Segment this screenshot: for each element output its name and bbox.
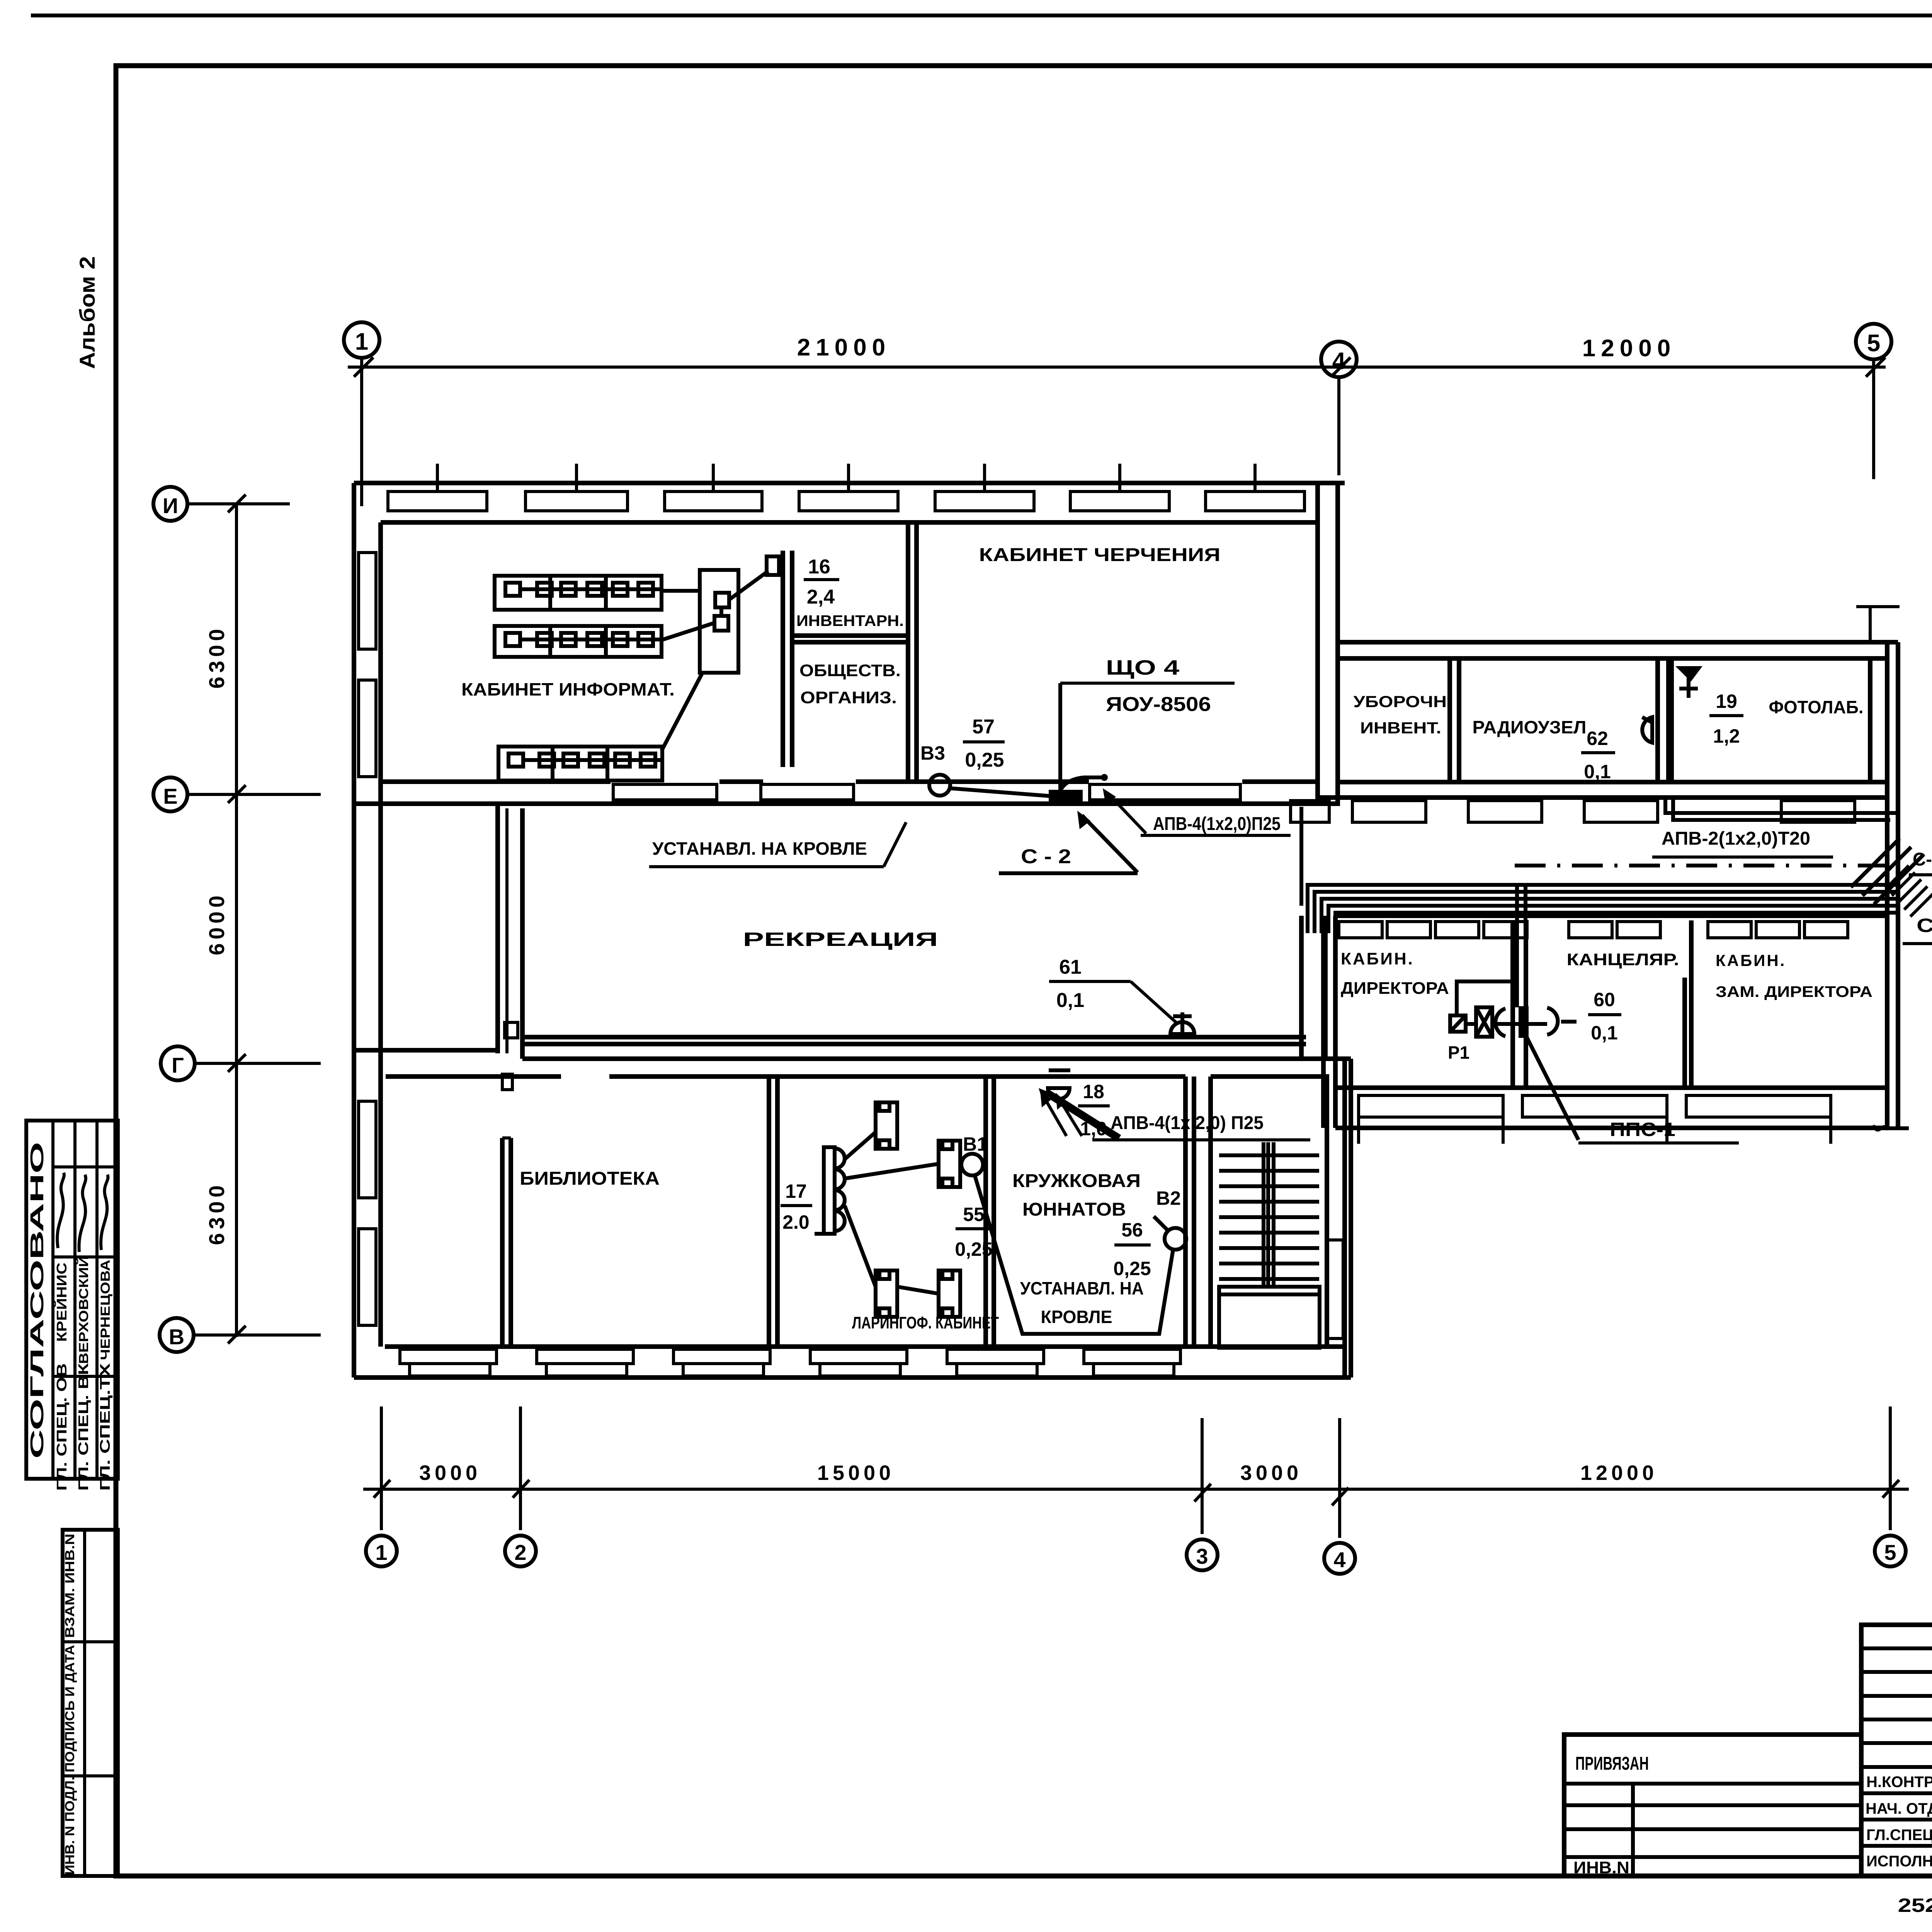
director wing bottom inner wall	[1335, 1085, 1887, 1090]
svg-text:В: В	[169, 1325, 184, 1349]
partition inventory/obshestv	[794, 633, 906, 638]
svg-text:5: 5	[1884, 1540, 1896, 1565]
svg-text:3: 3	[1196, 1544, 1208, 1568]
svg-text:19: 19	[1716, 690, 1737, 712]
svg-text:18: 18	[1083, 1081, 1104, 1102]
outer top border line	[31, 14, 1932, 17]
svg-text:ПОДПИСЬ И ДАТА: ПОДПИСЬ И ДАТА	[63, 1645, 77, 1772]
grid bubble G (left)	[161, 1046, 195, 1080]
signature squiggle 1	[57, 1173, 64, 1248]
partition informatics/inventory	[781, 551, 785, 767]
svg-text:1: 1	[375, 1540, 387, 1565]
stair left wall	[1208, 1077, 1213, 1347]
svg-text:ИНВЕНТАРН.: ИНВЕНТАРН.	[796, 612, 904, 629]
svg-text:ИНВЕНТ.: ИНВЕНТ.	[1360, 719, 1441, 737]
svg-text:РЕКРЕАЦИЯ: РЕКРЕАЦИЯ	[743, 929, 938, 950]
bundle hatch marks	[1886, 866, 1932, 917]
panel S-2 (black)	[1049, 790, 1083, 803]
upper wing north outer wall	[354, 481, 1345, 485]
svg-text:6000: 6000	[204, 892, 229, 956]
svg-text:КРЕЙНИС: КРЕЙНИС	[53, 1263, 70, 1342]
svg-text:КАБИН.: КАБИН.	[1716, 951, 1786, 969]
west inner wall	[378, 522, 383, 1347]
bundle diagonals to photolab	[1851, 838, 1923, 904]
main cable bundle	[1308, 885, 1896, 933]
lower wing bottom inner wall	[385, 1344, 1345, 1349]
ceiling vent 61	[1170, 1022, 1194, 1034]
wire L to P1	[1457, 981, 1515, 1015]
drawing-room right wall	[1315, 483, 1320, 804]
svg-text:ИНВ. N ПОДЛ.: ИНВ. N ПОДЛ.	[63, 1777, 77, 1875]
svg-text:ОБЩЕСТВ.: ОБЩЕСТВ.	[799, 661, 901, 680]
partition uborochn right	[1447, 658, 1452, 782]
svg-text:2: 2	[514, 1540, 526, 1565]
corridor window of drawing room	[1090, 784, 1240, 800]
svg-text:НАЧ. ОТД.: НАЧ. ОТД.	[1866, 1800, 1932, 1817]
PPS-1 leader	[1526, 1036, 1578, 1140]
computer desk row 3	[498, 747, 662, 781]
svg-text:17: 17	[785, 1180, 807, 1202]
laringof tables	[845, 1102, 960, 1317]
svg-text:АПВ-4(1х2,0)П25: АПВ-4(1х2,0)П25	[1153, 814, 1281, 834]
west outer wall	[352, 483, 356, 1378]
svg-text:ГЛ. СПЕЦ.ТХ: ГЛ. СПЕЦ.ТХ	[97, 1363, 113, 1491]
svg-text:60: 60	[1594, 989, 1615, 1010]
svg-text:0,1: 0,1	[1584, 761, 1611, 782]
svg-text:2,4: 2,4	[807, 586, 835, 608]
upper wing south wall inner	[381, 779, 611, 784]
svg-text:РАДИОУЗЕЛ: РАДИОУЗЕЛ	[1473, 717, 1587, 737]
svg-text:СМ. ЛИСТ ЭО-8: СМ. ЛИСТ ЭО-8	[1917, 915, 1932, 936]
library right wall	[767, 1077, 771, 1347]
wire B3 to panel	[950, 788, 1049, 796]
svg-text:21000: 21000	[797, 334, 891, 361]
cable APV-4 corridor	[1299, 807, 1303, 906]
svg-text:АПВ-4(1х 2,0) П25: АПВ-4(1х 2,0) П25	[1111, 1113, 1264, 1133]
grid bubble 5 (bottom)	[1889, 1406, 1892, 1530]
partition kancelar/zam	[1682, 978, 1687, 1088]
computer desk row 2	[495, 626, 662, 657]
recreation south wall	[522, 1035, 1306, 1039]
svg-text:ЧЕРНЕЦОВА: ЧЕРНЕЦОВА	[98, 1260, 113, 1360]
lower wing bottom outer wall	[354, 1375, 1351, 1380]
dash-dot line C-10	[1515, 864, 1889, 867]
soglasovano table	[26, 1121, 118, 1479]
central signature table	[1861, 1625, 1932, 1876]
svg-text:КАБИН.: КАБИН.	[1341, 949, 1414, 968]
svg-text:6300: 6300	[204, 1182, 229, 1245]
central vertical wall	[495, 804, 500, 1053]
thick riser arrow APV-4 lower	[1048, 1094, 1119, 1138]
director wing bottom windows	[1359, 1095, 1831, 1144]
svg-text:0,25: 0,25	[1113, 1258, 1151, 1279]
svg-text:57: 57	[972, 716, 995, 738]
door stub small	[502, 1074, 512, 1090]
grid bubble 1 (top)	[344, 322, 379, 358]
grid bubble E (left)	[153, 777, 187, 811]
svg-text:0,25: 0,25	[965, 749, 1004, 771]
svg-text:ЗАМ. ДИРЕКТОРА: ЗАМ. ДИРЕКТОРА	[1716, 983, 1872, 1000]
svg-text:3000: 3000	[1240, 1461, 1302, 1485]
top dimension line	[348, 366, 1886, 369]
right wing top corner tick	[1856, 605, 1900, 608]
grid bubble 4 (top)	[1321, 342, 1357, 377]
svg-text:С - 2: С - 2	[1021, 845, 1071, 868]
grid bubble 2 (bottom)	[519, 1406, 522, 1530]
partition photolab left	[1655, 658, 1660, 782]
svg-text:УСТАНАВЛ. НА КРОВЛЕ: УСТАНАВЛ. НА КРОВЛЕ	[652, 838, 867, 859]
svg-text:12000: 12000	[1580, 1461, 1658, 1485]
signature squiggle 3	[101, 1175, 108, 1250]
upper wing north inner wall	[381, 520, 1318, 525]
svg-text:АПВ-2(1х2,0)Т20: АПВ-2(1х2,0)Т20	[1662, 828, 1810, 849]
bottom dimension line	[363, 1488, 1909, 1491]
grid bubble 5 (top)	[1856, 324, 1891, 359]
svg-text:56: 56	[1121, 1219, 1143, 1241]
svg-text:1,0: 1,0	[1080, 1118, 1107, 1139]
corridor door sills director wing	[1339, 922, 1848, 938]
east outer wall	[1885, 642, 1889, 1128]
svg-text:ФОТОЛАБ.: ФОТОЛАБ.	[1769, 697, 1864, 717]
svg-text:УБОРОЧН.: УБОРОЧН.	[1354, 692, 1452, 711]
svg-text:62: 62	[1587, 728, 1608, 749]
svg-text:ВЗАМ. ИНВ.N: ВЗАМ. ИНВ.N	[63, 1534, 77, 1638]
corridor window informatics	[613, 784, 717, 800]
trapezoid callout krovle	[975, 1175, 1173, 1334]
svg-text:0,25: 0,25	[955, 1238, 992, 1260]
speaker symbol	[1642, 717, 1652, 743]
vertical feed wires	[1515, 885, 1519, 1007]
privyazan box	[1564, 1735, 1861, 1876]
arrow to S-2 from label	[1082, 815, 1138, 872]
svg-text:55: 55	[963, 1204, 985, 1225]
svg-text:25225-02: 25225-02	[1898, 1895, 1932, 1916]
laringof booth strip	[824, 1147, 835, 1234]
photolab inner right wall	[1868, 658, 1872, 782]
svg-text:61: 61	[1059, 956, 1082, 978]
svg-text:15000: 15000	[817, 1461, 895, 1485]
library left partition	[500, 1138, 505, 1347]
grid bubble V (left)	[160, 1318, 194, 1352]
svg-text:Е: Е	[163, 784, 177, 808]
director wing bottom outer wall	[1335, 1126, 1887, 1130]
lower wing top inner wall	[386, 1074, 561, 1079]
svg-text:ГЛ.СПЕЦ.: ГЛ.СПЕЦ.	[1866, 1827, 1932, 1844]
right wing bottom walls	[1340, 780, 1887, 784]
svg-text:ЮННАТОВ: ЮННАТОВ	[1022, 1199, 1126, 1220]
svg-text:СОГЛАСОВАНО: СОГЛАСОВАНО	[27, 1142, 48, 1459]
svg-text:5: 5	[1867, 330, 1880, 357]
svg-text:0,1: 0,1	[1591, 1022, 1618, 1044]
stair right wall	[1325, 1077, 1329, 1347]
corridor window obshestv	[761, 784, 854, 800]
wall device 16	[767, 556, 779, 575]
antenna symbol photolab	[1675, 666, 1702, 682]
stairs/director wall	[1321, 916, 1326, 1128]
svg-text:В2: В2	[1156, 1187, 1181, 1209]
svg-text:ПРИВЯЗАН: ПРИВЯЗАН	[1575, 1753, 1649, 1774]
north windows row	[388, 464, 1304, 511]
svg-text:0,1: 0,1	[1056, 989, 1084, 1012]
svg-text:И: И	[163, 493, 178, 518]
svg-text:Альбом 2: Альбом 2	[75, 256, 99, 369]
wires informatics	[662, 571, 768, 751]
stairs	[1219, 1142, 1320, 1348]
svg-text:ГЛ. СПЕЦ. ОВ: ГЛ. СПЕЦ. ОВ	[54, 1363, 70, 1491]
south windows row	[400, 1349, 1180, 1376]
svg-text:КРОВЛЕ: КРОВЛЕ	[1041, 1307, 1112, 1327]
svg-text:12000: 12000	[1582, 335, 1676, 362]
svg-text:1,2: 1,2	[1713, 725, 1740, 747]
lower wing top outer wall	[354, 1048, 498, 1053]
svg-text:6300: 6300	[204, 625, 229, 689]
ceiling symbol yunnat	[1048, 1088, 1070, 1099]
svg-text:3000: 3000	[419, 1461, 481, 1485]
yunnat right wall	[1183, 1077, 1188, 1347]
svg-text:КАБИНЕТ ИНФОРМАТ.: КАБИНЕТ ИНФОРМАТ.	[461, 679, 675, 699]
partition director/kancelar	[1510, 920, 1515, 1088]
svg-text:1: 1	[355, 328, 368, 355]
svg-text:4: 4	[1333, 1548, 1345, 1572]
riser to board label	[1058, 683, 1062, 791]
partition right of small rooms	[906, 522, 910, 782]
signature squiggle 2	[79, 1175, 86, 1252]
connecting wall stairs to director wing	[1299, 916, 1304, 1059]
svg-text:ОРГАНИЗ.: ОРГАНИЗ.	[800, 688, 897, 707]
grid bubble 4 (bottom)	[1338, 1418, 1341, 1538]
director wing corridor wall	[1335, 913, 1887, 918]
right wing top wall	[1338, 640, 1898, 645]
laringof right / yunnat left wall	[983, 1077, 988, 1347]
svg-text:ЩО 4: ЩО 4	[1106, 656, 1179, 679]
grid bubble 3 (bottom)	[1201, 1418, 1204, 1534]
stairwell window bay	[1327, 1240, 1343, 1338]
svg-text:УСТАНАВЛ. НА: УСТАНАВЛ. НА	[1020, 1278, 1144, 1298]
left dimension line	[235, 502, 238, 1337]
teacher panel cabinet	[700, 570, 738, 673]
ground symbol / wall end bar	[1854, 1126, 1909, 1130]
svg-text:ЯОУ-8506: ЯОУ-8506	[1106, 693, 1211, 716]
svg-text:В3: В3	[920, 742, 945, 764]
svg-text:Р1: Р1	[1448, 1043, 1469, 1063]
svg-text:16: 16	[808, 556, 830, 578]
computer desk row 1	[495, 576, 662, 610]
svg-text:В1: В1	[963, 1133, 988, 1155]
svg-text:ГЛ. СПЕЦ. ВК: ГЛ. СПЕЦ. ВК	[75, 1363, 91, 1491]
svg-text:ППС-1: ППС-1	[1610, 1119, 1675, 1140]
arrow2 to S-2	[1107, 793, 1146, 833]
svg-text:2.0: 2.0	[782, 1211, 810, 1233]
APV-2 cable L-lines	[1665, 798, 1897, 813]
west wall windows	[359, 553, 376, 1325]
svg-text:КАБИНЕТ ЧЕРЧЕНИЯ: КАБИНЕТ ЧЕРЧЕНИЯ	[979, 545, 1221, 565]
svg-text:КРУЖКОВАЯ: КРУЖКОВАЯ	[1012, 1171, 1141, 1191]
door sills right wing	[1291, 801, 1855, 822]
P1 device group	[1450, 1015, 1466, 1032]
svg-text:ИНВ.N: ИНВ.N	[1573, 1858, 1629, 1877]
svg-text:БИБЛИОТЕКА: БИБЛИОТЕКА	[520, 1168, 660, 1189]
svg-text:ДИРЕКТОРА: ДИРЕКТОРА	[1341, 979, 1449, 998]
svg-text:ВЕРХОВСКИЙ: ВЕРХОВСКИЙ	[76, 1256, 91, 1364]
lower margin table	[63, 1530, 118, 1876]
svg-text:Г: Г	[172, 1053, 184, 1077]
upper wing south wall outer	[354, 801, 1340, 806]
lower wing east wall	[1342, 1059, 1347, 1378]
svg-text:Н.КОНТР.: Н.КОНТР.	[1866, 1774, 1932, 1791]
svg-text:ИСПОЛН.: ИСПОЛН.	[1866, 1853, 1932, 1870]
grid bubble I (left)	[153, 487, 187, 521]
svg-text:С-10 ; С-11: С-10 ; С-11	[1913, 849, 1932, 870]
svg-text:КАНЦЕЛЯР.: КАНЦЕЛЯР.	[1567, 950, 1679, 969]
grid bubble 1 (bottom)	[380, 1406, 383, 1530]
